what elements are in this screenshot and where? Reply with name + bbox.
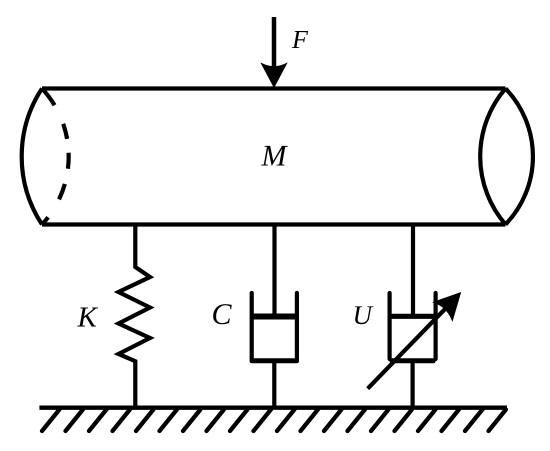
svg-text:M: M — [261, 140, 289, 173]
svg-text:C: C — [212, 298, 233, 331]
svg-text:U: U — [353, 300, 374, 330]
svg-text:F: F — [291, 25, 309, 54]
svg-text:K: K — [77, 302, 99, 334]
